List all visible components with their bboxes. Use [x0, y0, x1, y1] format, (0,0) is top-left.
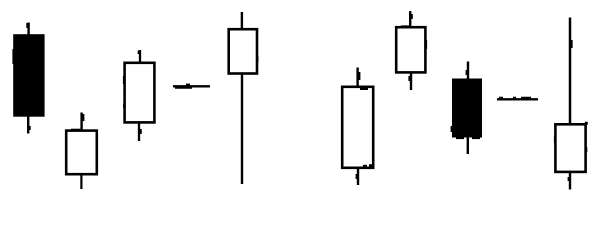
- candle C5 bottom edge ticks: [363, 165, 367, 167]
- candle C5 top edge tick: [360, 88, 368, 90]
- candle C7 black body: [451, 79, 482, 140]
- dash D2: [497, 98, 538, 99]
- candle C4 upper wick: [241, 12, 243, 30]
- candle C8 top right corner overshoot: [585, 122, 588, 125]
- candle C3 white body: [125, 63, 155, 123]
- candle C6 lower wick: [410, 73, 411, 91]
- candle C5 white body: [342, 87, 373, 168]
- candle C5 upper wick: [358, 68, 360, 88]
- candle C4 lower wick: [241, 74, 243, 185]
- candle C7 lower wick: [467, 138, 469, 155]
- candle C8 white body: [555, 124, 585, 172]
- candle C8 left edge tick: [554, 136, 556, 143]
- candle C4 right edge tick: [256, 56, 258, 62]
- candle C7 upper wick: [467, 62, 468, 80]
- candle C1 black body: [12, 34, 44, 117]
- candle C2 body top tick: [71, 129, 81, 131]
- candle C2 white body: [66, 131, 97, 175]
- candle C2 upper wick: [82, 113, 84, 132]
- candle C4 white body: [229, 29, 257, 73]
- candle C2 lower wick: [80, 174, 82, 189]
- candle C1 upper wick: [28, 23, 29, 35]
- candle C8 lower wick: [569, 172, 570, 190]
- candle C3 lower wick: [139, 123, 141, 142]
- candle C1 lower wick: [28, 116, 29, 134]
- candle C8 upper wick: [570, 18, 571, 126]
- candle C3 left edge ticks: [123, 76, 125, 84]
- candle C8 right edge tick: [585, 147, 587, 152]
- dash D1: [173, 85, 210, 88]
- candle C3 upper wick: [139, 50, 140, 63]
- candle C6 right edge tick: [425, 40, 427, 49]
- candle C6 top edge tick: [401, 25, 409, 27]
- candle C5 lower wick: [357, 168, 358, 186]
- candle C6 upper wick: [410, 11, 411, 28]
- candle C6 white body: [396, 27, 425, 72]
